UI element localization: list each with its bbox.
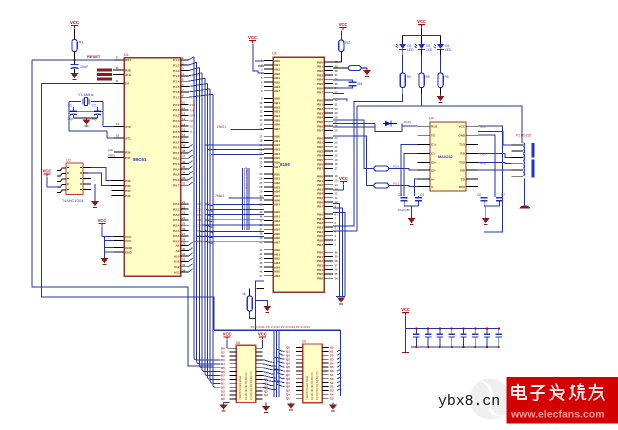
svg-text:C1+: C1+	[431, 143, 437, 147]
svg-text:A11: A11	[174, 260, 180, 264]
svg-text:VCC: VCC	[401, 307, 410, 312]
svg-text:34: 34	[182, 268, 186, 272]
U1 pin stubs P3.4 P3.5	[112, 190, 125, 192]
svg-text:13: 13	[182, 117, 186, 121]
LED D3	[421, 35, 423, 44]
svg-text:T1O: T1O	[459, 143, 466, 147]
svg-text:P0.0: P0.0	[173, 146, 180, 150]
svg-text:8155: 8155	[280, 162, 290, 167]
U1 right pins P3.0-P3.7	[173, 101, 188, 145]
wire bus right drop	[339, 330, 341, 396]
svg-text:PB7: PB7	[317, 91, 323, 95]
svg-text:PB7: PB7	[317, 129, 323, 133]
svg-text:C7: C7	[501, 193, 505, 197]
capacitor bank C11	[427, 328, 429, 334]
svg-text:15: 15	[182, 128, 186, 132]
wire D-bus C	[333, 136, 374, 186]
capacitor C4	[401, 197, 408, 199]
svg-text:37: 37	[182, 154, 186, 158]
svg-text:39: 39	[182, 144, 186, 148]
svg-text:R2O: R2O	[459, 185, 466, 189]
svg-text:22: 22	[182, 205, 186, 209]
logo text dianzifashaoyou	[512, 384, 604, 400]
wires U6 right to right drop	[337, 350, 340, 391]
svg-text:27: 27	[182, 232, 186, 236]
svg-text:GND: GND	[125, 250, 133, 254]
svg-text:www.elecfans.com: www.elecfans.com	[510, 409, 605, 421]
svg-text:PB7: PB7	[317, 243, 323, 247]
svg-text:7MsL1: 7MsL1	[215, 194, 225, 198]
svg-text:INT0: INT0	[190, 114, 196, 118]
svg-text:P34: P34	[125, 189, 131, 193]
svg-text:P3.4: P3.4	[173, 124, 180, 128]
svg-text:10uF: 10uF	[80, 65, 89, 69]
wire U4 left caps	[401, 144, 418, 196]
wire long V2 left	[42, 83, 215, 330]
ground LED3	[440, 94, 442, 96]
ground U5 left	[223, 403, 225, 405]
svg-text:U2: U2	[272, 52, 277, 56]
IC U6 body	[303, 344, 323, 403]
IC U5 body	[236, 345, 256, 402]
short vertical bus with labels	[243, 168, 250, 230]
svg-text:P3.1: P3.1	[393, 182, 400, 186]
svg-text:19uS1: 19uS1	[217, 125, 226, 129]
svg-text:PB6: PB6	[317, 276, 323, 280]
capacitor C2	[97, 107, 99, 111]
svg-text:P3.5: P3.5	[173, 130, 180, 134]
wire extra to diode loop	[333, 126, 375, 128]
svg-text:C6: C6	[477, 193, 481, 197]
svg-text:PSE: PSE	[125, 68, 131, 72]
svg-text:21: 21	[182, 200, 186, 204]
capacitor C5	[415, 197, 422, 199]
svg-text:P3.3: P3.3	[173, 119, 180, 123]
wires mid bus into U6	[274, 349, 284, 386]
wire LED2 down	[421, 94, 423, 106]
svg-text:P2.0=CS1,P2.1=CS2,P2.3=CS3,P2.: P2.0=CS1,P2.1=CS2,P2.3=CS3,P2.4=CS4	[251, 325, 311, 329]
wire T1OUT to DB9	[478, 153, 511, 157]
ground U3	[94, 184, 96, 201]
connector P1 pin bumps	[524, 143, 525, 176]
wire U4 pin15	[478, 135, 495, 197]
svg-text:P2.4: P2.4	[173, 224, 180, 228]
svg-text:P1.7: P1.7	[173, 96, 180, 100]
svg-text:P2.6: P2.6	[173, 234, 180, 238]
svg-text:P0.7: P0.7	[173, 184, 180, 188]
svg-text:23: 23	[182, 211, 186, 215]
ground VCC group	[104, 252, 106, 258]
svg-text:P32: P32	[125, 179, 131, 183]
ground U4 left caps	[408, 218, 416, 223]
ground DB9 dome	[520, 205, 531, 208]
svg-text:LED: LED	[426, 48, 433, 52]
wire DB9 ground stem	[524, 178, 526, 205]
svg-text:R4: R4	[407, 75, 411, 79]
capacitor bank C16	[486, 328, 488, 334]
svg-text:T1I: T1I	[431, 134, 436, 138]
svg-text:25: 25	[335, 128, 339, 132]
wire XTAL2	[69, 130, 107, 132]
ground U6 left	[290, 402, 292, 405]
svg-text:31: 31	[116, 79, 120, 83]
svg-text:C4: C4	[398, 193, 402, 197]
svg-text:ALE: ALE	[125, 73, 131, 77]
LED D4	[440, 35, 442, 44]
svg-text:VCC: VCC	[459, 125, 466, 129]
wires bundle into U5	[194, 357, 221, 387]
svg-text:1Q 2Q 3Q 4Q 5Q 6Q 7Q: 1Q 2Q 3Q 4Q 5Q 6Q 7Q	[315, 371, 319, 400]
svg-text:74HC573 latch driver: 74HC573 latch driver	[238, 375, 242, 400]
wire VCC3 to U1 pins	[101, 227, 103, 237]
resistor R7	[374, 183, 389, 188]
svg-text:P2.2: P2.2	[173, 213, 180, 217]
wire R8 bottom	[250, 311, 256, 318]
LED D2	[402, 35, 404, 44]
svg-text:ALE: ALE	[108, 148, 113, 152]
svg-text:V-: V-	[431, 185, 434, 189]
svg-text:R2I: R2I	[460, 168, 465, 172]
svg-text:R1IN: R1IN	[404, 120, 411, 124]
svg-text:AB6: AB6	[274, 274, 280, 278]
svg-text:P3.1: P3.1	[173, 108, 180, 112]
U1 pin PSEN stub	[108, 157, 124, 159]
svg-text:18: 18	[116, 134, 120, 138]
svg-text:VCC: VCC	[339, 22, 348, 27]
svg-text:P1.3: P1.3	[173, 74, 180, 78]
U4 left pins	[418, 125, 438, 189]
ground below U2	[263, 306, 271, 311]
svg-text:P1 RS232: P1 RS232	[516, 134, 532, 138]
svg-text:P1.5: P1.5	[173, 85, 180, 89]
crystal Y1	[69, 101, 81, 103]
U5 left pins	[221, 346, 236, 401]
ground U4 right caps	[482, 218, 490, 223]
svg-text:T2I: T2I	[461, 177, 466, 181]
svg-text:P3.0: P3.0	[393, 165, 400, 169]
svg-text:P33: P33	[125, 184, 131, 188]
capacitor C7	[496, 197, 503, 199]
svg-text:XT2: XT2	[125, 125, 131, 129]
svg-text:30p: 30p	[68, 117, 74, 121]
svg-text:A9: A9	[176, 249, 180, 253]
svg-text:VCC: VCC	[417, 19, 426, 24]
svg-text:VCC: VCC	[339, 176, 348, 181]
svg-text:GND: GND	[458, 134, 466, 138]
svg-text:Y1 6MHz: Y1 6MHz	[78, 93, 94, 97]
svg-text:17: 17	[335, 166, 339, 170]
svg-text:P0.4: P0.4	[173, 167, 180, 171]
wire U3 to P3.2	[91, 168, 112, 181]
node junction R1/C3	[74, 59, 76, 61]
svg-text:INT1: INT1	[190, 119, 196, 123]
resistor R4	[400, 73, 405, 88]
wire long to DB9	[357, 106, 522, 143]
svg-text:35: 35	[182, 165, 186, 169]
wire cap bank left	[405, 316, 407, 353]
wire to U4 R1IN	[402, 125, 418, 127]
wire R6 to U4	[389, 169, 418, 171]
wire net label y197	[229, 197, 264, 199]
svg-text:VCC: VCC	[480, 125, 486, 129]
wire LED1 down	[333, 94, 403, 226]
svg-text:LED: LED	[407, 48, 414, 52]
svg-text:U6: U6	[302, 340, 306, 344]
svg-text:VCC: VCC	[70, 20, 79, 25]
svg-text:C5: C5	[420, 193, 424, 197]
capacitor bank C14	[462, 328, 464, 334]
U1 right pins P1.0-P1.7	[173, 56, 188, 100]
U3 left pins	[57, 168, 66, 171]
svg-text:1k: 1k	[242, 292, 246, 296]
svg-text:AB7: AB7	[274, 89, 280, 93]
svg-text:40: 40	[259, 240, 263, 244]
svg-text:38: 38	[182, 149, 186, 153]
wire crystal left	[68, 102, 70, 132]
wires bundle to U2 lower	[194, 205, 264, 242]
svg-text:6M: 6M	[358, 82, 363, 86]
wire U3 to P3.3	[88, 173, 112, 186]
wires U2 right to ground	[333, 204, 340, 297]
U3 inner pin dots	[67, 167, 69, 168]
svg-text:P3.2: P3.2	[173, 114, 180, 118]
svg-text:AB7: AB7	[274, 240, 280, 244]
svg-text:P1.1: P1.1	[173, 63, 180, 67]
U1 pin RST stub	[114, 59, 124, 61]
ground U5 right	[265, 403, 267, 406]
svg-text:10: 10	[182, 101, 186, 105]
svg-text:R6: R6	[445, 75, 449, 79]
capacitor bank C12	[439, 328, 441, 334]
svg-text:C1: C1	[68, 104, 72, 108]
svg-text:24: 24	[259, 165, 263, 169]
svg-text:AB7: AB7	[274, 127, 280, 131]
svg-text:31: 31	[182, 252, 186, 256]
svg-text:A10: A10	[174, 254, 180, 258]
resistor R2 vertical	[340, 31, 342, 41]
svg-text:89C51: 89C51	[133, 157, 147, 162]
svg-text:A8: A8	[176, 244, 180, 248]
capacitor bank C17	[498, 328, 500, 334]
svg-text:VCC: VCC	[248, 35, 257, 40]
svg-text:P3.7: P3.7	[173, 141, 180, 145]
svg-text:C2+: C2+	[431, 161, 437, 165]
connector P1 pin stubs	[512, 145, 524, 176]
wire R7 to U4	[389, 186, 418, 187]
wire mid verticals	[273, 330, 275, 397]
capacitor C1	[73, 107, 75, 111]
svg-text:MAX232: MAX232	[438, 155, 453, 159]
wire diode loop	[333, 123, 375, 125]
svg-text:14: 14	[182, 122, 186, 126]
svg-text:36: 36	[182, 160, 186, 164]
U6 right pins	[322, 346, 334, 401]
IC U1 89C51 body	[124, 58, 181, 277]
U2 bottom-left pin stub	[256, 287, 264, 289]
U1 right pins AD0-AD7	[173, 200, 201, 244]
U1 pin EA wire	[42, 82, 115, 84]
svg-text:P37: P37	[125, 156, 131, 160]
svg-text:P36: P36	[125, 150, 131, 154]
wire caps bottom join	[403, 201, 405, 206]
svg-text:24: 24	[182, 216, 186, 220]
U1 right pins P2 lower	[174, 242, 193, 275]
svg-text:12: 12	[182, 112, 186, 116]
svg-text:V+: V+	[431, 177, 435, 181]
resistor R6	[374, 166, 389, 171]
svg-text:34: 34	[335, 276, 339, 280]
svg-text:P2.3: P2.3	[173, 218, 180, 222]
resistor R1	[74, 29, 76, 40]
svg-text:S5: S5	[330, 396, 334, 400]
svg-text:C2: C2	[92, 104, 96, 108]
svg-text:T2O: T2O	[459, 161, 466, 165]
wire bottom bus	[214, 329, 340, 331]
svg-text:1D 2D 3D 4D 5D 6D 7D: 1D 2D 3D 4D 5D 6D 7D	[310, 372, 314, 400]
svg-text:P1.0: P1.0	[173, 58, 180, 62]
bus entries P1 to vertical bus	[189, 57, 213, 97]
wire U2 pin right y98	[333, 99, 347, 102]
svg-text:GND: GND	[125, 246, 133, 250]
resistor R3 horizontal	[333, 67, 349, 69]
resistor R6	[438, 73, 443, 88]
svg-text:47: 47	[259, 274, 263, 278]
logo box elecfans	[507, 377, 618, 424]
svg-text:74AHC1G04: 74AHC1G04	[62, 199, 84, 203]
wire U4 pin16	[478, 126, 502, 232]
svg-text:33: 33	[182, 176, 186, 180]
svg-text:VCC: VCC	[223, 332, 232, 337]
wires U5 right to mid bus	[262, 360, 279, 390]
svg-text:1Q 2Q 3Q 4Q 5Q 6Q 7Q: 1Q 2Q 3Q 4Q 5Q 6Q 7Q	[249, 371, 253, 400]
svg-text:74HC573 latch driver: 74HC573 latch driver	[305, 375, 309, 400]
wire U2 right small hooks	[333, 93, 344, 95]
svg-text:EA: EA	[125, 82, 130, 86]
svg-text:P2.0: P2.0	[173, 202, 180, 206]
svg-text:17: 17	[182, 139, 186, 143]
svg-text:U3: U3	[66, 159, 71, 163]
svg-text:C1-: C1-	[431, 152, 436, 156]
svg-text:RST: RST	[125, 58, 131, 62]
svg-text:R2: R2	[345, 40, 351, 45]
diode D1	[385, 121, 391, 127]
U3 right pins	[83, 167, 91, 169]
U1 pin ALE stub	[114, 151, 124, 153]
svg-text:VCC: VCC	[43, 169, 52, 174]
wire cap bank rails	[406, 327, 499, 329]
wire bus bundle 8 lines	[194, 57, 213, 385]
svg-text:A12: A12	[174, 265, 180, 269]
svg-text:P3.0: P3.0	[173, 103, 180, 107]
svg-text:29: 29	[182, 242, 186, 246]
U4 right pins	[458, 125, 478, 189]
U1 right pins P0.0-P0.7	[173, 144, 192, 188]
capacitor C6	[481, 197, 488, 199]
wire D-bus A	[333, 120, 374, 169]
svg-text:P0.2: P0.2	[173, 157, 180, 161]
svg-text:AB7: AB7	[274, 203, 280, 207]
wire caps common rail	[69, 110, 103, 112]
capacitor bank C15	[474, 328, 476, 334]
svg-text:P1.6: P1.6	[173, 90, 180, 94]
wire LED rail	[421, 28, 423, 36]
vertical red text labels	[246, 166, 248, 190]
svg-text:33: 33	[182, 263, 186, 267]
ground crystal	[86, 118, 88, 120]
svg-text:30: 30	[116, 66, 120, 70]
svg-text:10uF/25V: 10uF/25V	[398, 208, 410, 212]
svg-text:U5: U5	[236, 341, 240, 345]
svg-text:P1.2: P1.2	[173, 69, 180, 73]
IC U3 body	[66, 163, 83, 195]
svg-text:VCC: VCC	[98, 218, 107, 223]
svg-text:C2-: C2-	[431, 168, 436, 172]
IC U2 body	[273, 57, 324, 292]
svg-text:XT1: XT1	[125, 136, 131, 140]
svg-text:R1I: R1I	[460, 152, 465, 156]
svg-text:P0.3: P0.3	[173, 162, 180, 166]
net labels P3 cluster	[190, 103, 196, 134]
svg-text:VCC: VCC	[125, 239, 132, 243]
svg-text:PB7: PB7	[317, 205, 323, 209]
svg-text:D5: D5	[221, 397, 225, 401]
svg-text:1D 2D 3D 4D 5D 6D 7D: 1D 2D 3D 4D 5D 6D 7D	[244, 372, 248, 400]
capacitor bank C10	[415, 328, 417, 334]
svg-text:R1: R1	[79, 40, 85, 45]
svg-text:30: 30	[182, 247, 186, 251]
watermark grey circle	[470, 379, 511, 420]
svg-text:11: 11	[182, 106, 185, 110]
svg-text:U4: U4	[429, 117, 434, 121]
wire DB9 row5	[478, 169, 511, 171]
svg-text:34: 34	[182, 171, 186, 175]
wire to DB9 row1	[478, 131, 511, 145]
svg-text:26: 26	[182, 227, 186, 231]
wire R1IN to DB9	[478, 162, 511, 163]
resistor R5	[419, 73, 424, 88]
capacitor bank C13	[451, 328, 453, 334]
ground R3	[366, 68, 368, 70]
svg-text:25: 25	[182, 221, 186, 225]
svg-text:R1O: R1O	[431, 125, 438, 129]
svg-text:P0.6: P0.6	[173, 178, 180, 182]
svg-text:P1.4: P1.4	[173, 80, 180, 84]
ground under C3	[71, 73, 79, 78]
ground U2 right	[337, 298, 345, 303]
svg-text:A13: A13	[174, 270, 180, 274]
wires D cluster S-curves	[205, 204, 214, 243]
svg-text:P3.6: P3.6	[173, 135, 180, 139]
svg-text:P0.1: P0.1	[173, 151, 180, 155]
svg-text:LED: LED	[445, 48, 452, 52]
svg-text:P2.1: P2.1	[173, 207, 180, 211]
svg-text:P0.5: P0.5	[173, 173, 180, 177]
svg-text:RESET: RESET	[87, 54, 101, 59]
svg-text:Q4: Q4	[264, 393, 268, 397]
resistor R8 below U2	[249, 288, 251, 296]
svg-text:VCC: VCC	[258, 332, 267, 337]
wire XTAL1	[103, 126, 114, 128]
connector P1 body shell	[531, 143, 534, 158]
wire U2 pin to ground net	[256, 281, 264, 330]
svg-text:U1: U1	[124, 53, 129, 57]
U2 left pins	[259, 59, 280, 278]
svg-text:PB7: PB7	[317, 167, 323, 171]
svg-text:AB7: AB7	[274, 165, 280, 169]
crystal Y2	[333, 80, 353, 82]
wires bundle to U2 upper	[205, 129, 264, 154]
wire VCC4	[253, 44, 264, 74]
